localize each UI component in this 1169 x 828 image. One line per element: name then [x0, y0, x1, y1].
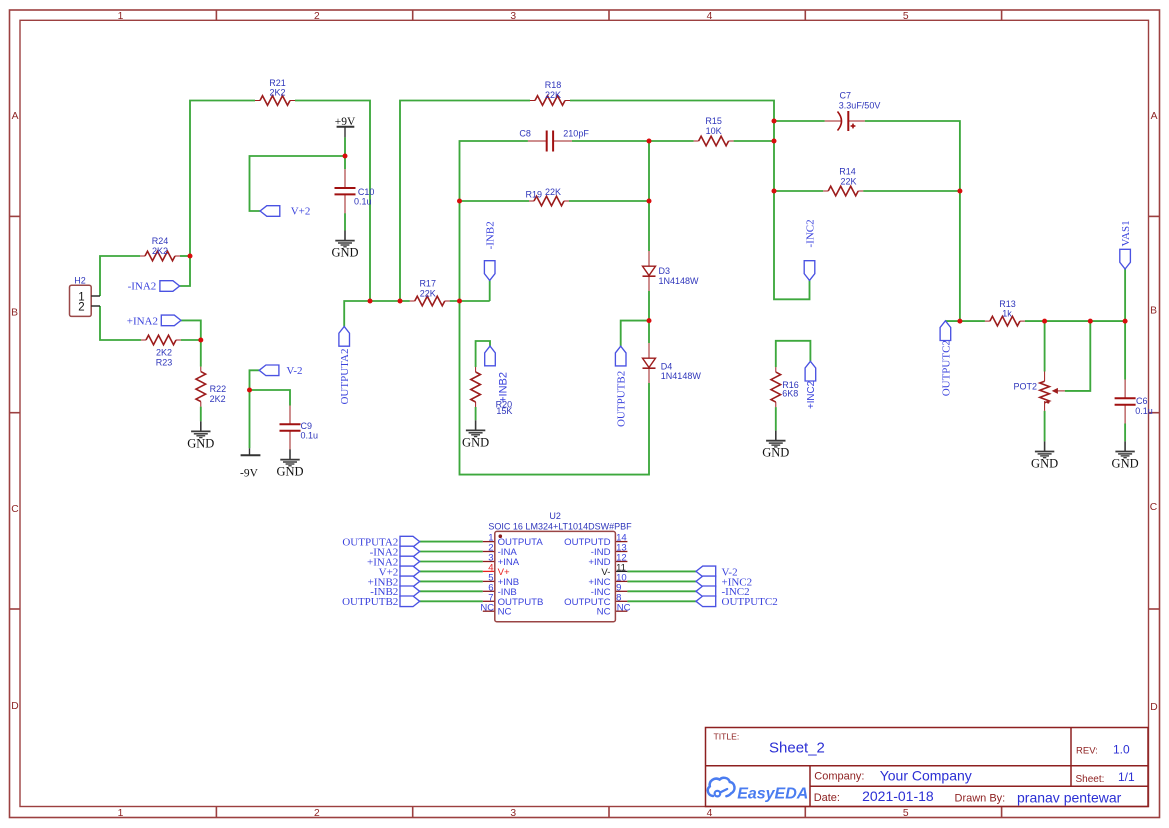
- svg-text:R23: R23: [156, 357, 173, 367]
- svg-text:VAS1: VAS1: [1120, 220, 1132, 246]
- svg-text:2K2: 2K2: [156, 347, 172, 357]
- svg-text:22K: 22K: [545, 187, 561, 197]
- svg-text:2: 2: [78, 301, 84, 313]
- svg-text:NC: NC: [597, 607, 611, 618]
- svg-text:Company:: Company:: [814, 771, 864, 783]
- svg-text:R17: R17: [419, 279, 436, 289]
- svg-text:C10: C10: [358, 187, 375, 197]
- svg-text:6K8: 6K8: [782, 389, 798, 399]
- svg-text:H2: H2: [74, 276, 86, 286]
- svg-text:-INB2: -INB2: [485, 221, 497, 249]
- svg-text:D: D: [11, 701, 18, 712]
- svg-text:R18: R18: [545, 80, 562, 90]
- svg-text:1.0: 1.0: [1113, 743, 1130, 757]
- svg-text:GND: GND: [331, 246, 358, 260]
- svg-text:0.1u: 0.1u: [301, 431, 319, 441]
- svg-text:V-2: V-2: [286, 365, 302, 377]
- svg-text:V+2: V+2: [291, 206, 311, 218]
- svg-text:C8: C8: [519, 128, 531, 138]
- svg-text:pranav pentewar: pranav pentewar: [1017, 790, 1122, 806]
- svg-text:1/1: 1/1: [1118, 770, 1135, 784]
- svg-text:-INC2: -INC2: [805, 219, 817, 247]
- svg-text:A: A: [12, 111, 19, 122]
- svg-text:B: B: [1150, 306, 1157, 317]
- svg-text:R14: R14: [839, 167, 856, 177]
- svg-text:R13: R13: [999, 299, 1016, 309]
- svg-text:2021-01-18: 2021-01-18: [862, 788, 934, 804]
- svg-text:SOIC 16 LM324+LT1014DSW#PBF: SOIC 16 LM324+LT1014DSW#PBF: [488, 522, 632, 532]
- svg-text:C7: C7: [840, 91, 852, 101]
- svg-text:-INA2: -INA2: [128, 281, 157, 293]
- svg-text:C: C: [11, 504, 19, 515]
- svg-text:2: 2: [314, 808, 320, 819]
- svg-text:Your Company: Your Company: [880, 768, 972, 784]
- svg-text:Drawn By:: Drawn By:: [955, 793, 1006, 805]
- svg-text:+INA2: +INA2: [127, 316, 158, 328]
- svg-text:-9V: -9V: [240, 467, 259, 479]
- svg-text:+9V: +9V: [335, 116, 356, 128]
- svg-text:R21: R21: [269, 78, 286, 88]
- svg-text:GND: GND: [187, 436, 214, 450]
- svg-text:OUTPUTA2: OUTPUTA2: [339, 349, 351, 405]
- svg-text:2K2: 2K2: [269, 88, 285, 98]
- svg-text:+INC2: +INC2: [806, 381, 817, 409]
- svg-text:R15: R15: [705, 116, 722, 126]
- svg-text:REV:: REV:: [1076, 746, 1098, 757]
- svg-text:1k: 1k: [1002, 309, 1012, 319]
- svg-text:4: 4: [707, 808, 713, 819]
- svg-text:NC: NC: [480, 602, 494, 613]
- svg-text:10K: 10K: [706, 126, 722, 136]
- svg-text:TITLE:: TITLE:: [714, 731, 740, 741]
- svg-text:NC: NC: [498, 607, 512, 618]
- svg-text:B: B: [11, 308, 18, 319]
- svg-text:210pF: 210pF: [563, 128, 589, 138]
- svg-text:Sheet:: Sheet:: [1076, 774, 1105, 785]
- svg-text:C: C: [1150, 502, 1158, 513]
- svg-text:POT2: POT2: [1013, 381, 1037, 391]
- svg-text:OUTPUTC2: OUTPUTC2: [722, 596, 778, 608]
- svg-text:+INB2: +INB2: [497, 372, 509, 403]
- svg-text:GND: GND: [1112, 456, 1139, 470]
- svg-text:5: 5: [903, 11, 909, 22]
- svg-text:1N4148W: 1N4148W: [659, 276, 700, 286]
- svg-text:R19: R19: [526, 189, 543, 199]
- svg-text:22K: 22K: [545, 90, 561, 100]
- svg-text:2: 2: [314, 11, 320, 22]
- svg-text:C6: C6: [1136, 396, 1148, 406]
- svg-text:D: D: [1150, 702, 1157, 713]
- svg-text:EasyEDA: EasyEDA: [737, 786, 808, 803]
- svg-text:Sheet_2: Sheet_2: [769, 739, 825, 756]
- svg-text:OUTPUTB2: OUTPUTB2: [616, 371, 628, 427]
- svg-text:3.3uF/50V: 3.3uF/50V: [839, 100, 881, 110]
- svg-text:D4: D4: [661, 362, 673, 372]
- svg-text:U2: U2: [549, 511, 561, 521]
- svg-text:GND: GND: [762, 446, 789, 460]
- svg-text:1N4148W: 1N4148W: [661, 371, 702, 381]
- svg-text:GND: GND: [462, 435, 489, 449]
- svg-text:GND: GND: [1031, 456, 1058, 470]
- svg-text:R22: R22: [210, 384, 227, 394]
- svg-text:3: 3: [510, 11, 516, 22]
- svg-text:1: 1: [118, 11, 124, 22]
- svg-text:OUTPUTC2: OUTPUTC2: [940, 340, 952, 396]
- svg-text:Date:: Date:: [814, 792, 840, 804]
- svg-text:OUTPUTB2: OUTPUTB2: [342, 596, 398, 608]
- svg-text:A: A: [1151, 111, 1158, 122]
- svg-text:5: 5: [903, 808, 909, 819]
- svg-text:22K: 22K: [420, 289, 436, 299]
- svg-text:4: 4: [707, 11, 713, 22]
- svg-text:22K: 22K: [840, 177, 856, 187]
- svg-text:2K2: 2K2: [210, 394, 226, 404]
- svg-text:D3: D3: [659, 266, 671, 276]
- svg-text:0.1u: 0.1u: [1135, 406, 1153, 416]
- svg-text:2K2: 2K2: [152, 246, 168, 256]
- svg-text:GND: GND: [276, 465, 303, 479]
- svg-text:R24: R24: [152, 236, 169, 246]
- svg-text:C9: C9: [301, 421, 313, 431]
- svg-text:NC: NC: [617, 602, 631, 613]
- svg-text:3: 3: [510, 808, 516, 819]
- svg-text:0.1u: 0.1u: [354, 196, 372, 206]
- svg-text:1: 1: [118, 808, 124, 819]
- svg-text:15K: 15K: [496, 406, 512, 416]
